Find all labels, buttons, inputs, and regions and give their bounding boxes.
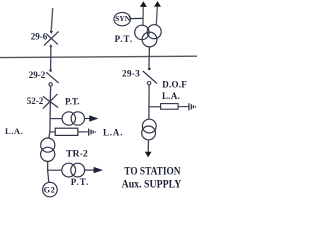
synchroscope SYN (circle): [114, 12, 131, 25]
wire (left feeder top segment): [51, 8, 53, 31]
ground (rotated earth symbol): [89, 129, 96, 136]
svg-text:P.T.: P.T.: [71, 177, 90, 187]
wire (29-3 to aux transformer): [148, 85, 150, 119]
wire (right LA branch horizontal): [149, 106, 161, 108]
svg-text:29-6: 29-6: [31, 31, 48, 41]
arrow (up, right feeder line 1): [140, 1, 147, 7]
lightning arrester (box): [161, 104, 179, 110]
arrow (down, to station supply): [145, 152, 152, 158]
disconnect switch 29-2 (dot contact, blade, circle contact): [46, 69, 58, 86]
wire (PT branch 2 horizontal): [48, 169, 62, 171]
wire (transformer to 29-3, crosses bus): [148, 47, 150, 67]
wire (PT branch 2 to arrow): [85, 169, 95, 171]
wire (29-2 to TR-2, main left feeder drop): [49, 86, 51, 138]
svg-text:L.A.: L.A.: [162, 91, 180, 101]
wire (LA branch horizontal): [50, 131, 56, 133]
svg-text:G2: G2: [44, 186, 56, 195]
wire (aux transformer down): [147, 140, 149, 152]
potential transformer (two overlapping circles): [62, 163, 85, 177]
arrow (right, PT output): [94, 167, 103, 173]
arrow (right, PT output): [89, 115, 98, 122]
wire (arrow 1 shaft): [142, 7, 144, 26]
svg-text:29-2: 29-2: [29, 70, 46, 80]
wire (TR-2 to G2): [48, 161, 49, 182]
wire (box to ground): [178, 106, 188, 108]
lightning arrester (box): [55, 128, 78, 135]
disconnect 29-6 (drawout breaker: down contact, X, up contact): [44, 31, 59, 47]
svg-text:SYN: SYN: [115, 14, 131, 23]
bus (main horizontal busbar): [0, 56, 197, 57]
wire (PT branch 1 to arrow): [85, 118, 91, 120]
wire (29-6 to 29-2 contact, crosses bus): [50, 47, 52, 69]
ground (rotated earth symbol): [189, 103, 196, 110]
wire (PT branch 1 horizontal): [50, 118, 62, 120]
wire (box to ground): [78, 131, 88, 133]
transformer (three winding, three overlapping circles): [135, 25, 162, 47]
potential transformer (two overlapping circles): [62, 112, 84, 125]
circuit breaker 52-2 (X over wire): [43, 94, 58, 109]
transformer TR-2 (two overlapping circles vertical): [41, 138, 55, 161]
svg-text:P.T.: P.T.: [65, 96, 80, 106]
station aux transformer (two overlapping circles vertical): [142, 119, 157, 140]
svg-text:D.O.F: D.O.F: [162, 80, 187, 90]
generator G2 (circle): [43, 182, 58, 197]
arrow (up, right feeder line 2): [154, 1, 161, 7]
svg-text:29-3: 29-3: [122, 69, 140, 79]
svg-text:L.A.: L.A.: [103, 128, 123, 138]
wire (arrow 2 shaft): [156, 6, 157, 24]
svg-text:Aux. SUPPLY: Aux. SUPPLY: [122, 176, 182, 190]
svg-text:52-2: 52-2: [27, 96, 44, 106]
wire (SYN to feeder): [131, 17, 144, 19]
disconnect switch 29-3 (dot contact, blade, circle contact): [143, 67, 157, 85]
svg-text:TR-2: TR-2: [66, 148, 88, 159]
svg-text:P.T.: P.T.: [115, 34, 134, 44]
svg-text:L.A.: L.A.: [5, 126, 23, 136]
